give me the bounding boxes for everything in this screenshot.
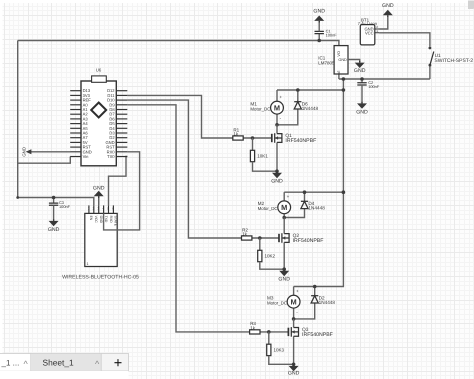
- wire Vin pin to left rail: [18, 157, 71, 164]
- svg-text:IRF540NPBF: IRF540NPBF: [293, 238, 324, 244]
- resistor 10K1 pulldown: [250, 138, 277, 171]
- wire left vertical rail: [17, 41, 19, 198]
- svg-text:GND: GND: [354, 68, 366, 74]
- svg-text:GND: GND: [271, 179, 283, 185]
- node rail M1 junction: [342, 88, 346, 92]
- svg-text:GND: GND: [313, 8, 325, 14]
- svg-text:+: +: [287, 194, 290, 199]
- svg-text:+: +: [296, 289, 299, 294]
- node supply row rail junction: [342, 77, 346, 81]
- regulator IC1 LM7805: [318, 46, 348, 74]
- svg-text:7.4v Li-ion: 7.4v Li-ion: [358, 21, 378, 26]
- svg-text:1: 1: [87, 262, 89, 266]
- resistor R3 1k: [250, 321, 260, 334]
- svg-text:VCC: VCC: [365, 30, 374, 35]
- capacitor C3 100nF: [49, 200, 71, 209]
- wire switch to supply row: [429, 67, 431, 79]
- wire C1 stem: [318, 34, 320, 41]
- resistor 10K2 pulldown: [258, 238, 285, 269]
- wire GND flag to U6 GND pin: [29, 151, 70, 153]
- svg-text:GND: GND: [338, 58, 347, 62]
- transistor Q1: [272, 125, 316, 171]
- svg-text:VO: VO: [337, 51, 341, 57]
- svg-text:GND: GND: [278, 277, 290, 283]
- capacitor C1 100nF: [315, 28, 338, 37]
- svg-text:_1 ...: _1 ...: [1, 359, 20, 368]
- svg-text:M: M: [274, 103, 280, 112]
- motor M2: [258, 192, 291, 220]
- svg-text:1N4448: 1N4448: [319, 300, 336, 305]
- node M1 drain junction: [275, 123, 279, 127]
- svg-text:1N4448: 1N4448: [302, 106, 319, 111]
- svg-text:1k: 1k: [242, 231, 248, 236]
- svg-text:IRF540NPBF: IRF540NPBF: [285, 138, 316, 144]
- svg-text:GND: GND: [48, 227, 60, 233]
- svg-text:Motor_DC: Motor_DC: [258, 206, 278, 211]
- node Q2 gate junction: [258, 236, 262, 240]
- wire regulator VI pin down to supply row: [338, 74, 340, 79]
- svg-text:Vin: Vin: [83, 154, 90, 159]
- ground BT1: [382, 3, 394, 17]
- wire BT1 GND to ground flag: [379, 15, 388, 29]
- battery BT1 7.4v Li-ion: [358, 17, 380, 45]
- svg-text:LM7805: LM7805: [318, 60, 335, 65]
- transistor Q3: [288, 319, 332, 364]
- svg-text:VCC: VCC: [94, 216, 98, 224]
- svg-text:VI: VI: [337, 71, 341, 75]
- svg-text:M: M: [281, 203, 287, 212]
- diode D6: [277, 90, 319, 125]
- resistor R2 1k: [242, 227, 252, 240]
- svg-text:100nF: 100nF: [326, 33, 338, 38]
- svg-text:GND: GND: [288, 371, 300, 377]
- svg-text:EN: EN: [89, 216, 93, 221]
- wire R2 to Q2 gate: [252, 237, 279, 239]
- svg-text:Motor_DC: Motor_DC: [267, 300, 287, 305]
- node Q1 gate junction: [251, 136, 255, 140]
- node M3 source junction: [292, 363, 296, 367]
- wire C3 junction stem: [53, 198, 55, 204]
- svg-text:STATE: STATE: [114, 216, 118, 227]
- capacitor C2 100nF: [357, 80, 380, 89]
- resistor R1 1k: [233, 127, 243, 140]
- wire bottom rail to bluetooth VCC pin: [18, 198, 94, 206]
- ground net flag at U6 GND pin: [22, 147, 32, 157]
- svg-text:SWITCH-SPST-2: SWITCH-SPST-2: [434, 58, 473, 64]
- ground M2 channel: [283, 269, 285, 271]
- MCU U6 Arduino Nano: [70, 68, 127, 166]
- svg-text:U6: U6: [96, 68, 102, 73]
- svg-text:10K3: 10K3: [274, 348, 285, 353]
- node bottom rail C3 junction: [52, 196, 56, 200]
- wire C2 stem: [361, 79, 363, 83]
- wire supply row to switch: [339, 78, 430, 80]
- svg-text:GND: GND: [93, 185, 105, 191]
- svg-text:M: M: [291, 297, 297, 306]
- node D6 top junction: [296, 88, 300, 92]
- diode D4: [284, 192, 325, 217]
- ground C2: [356, 85, 368, 116]
- node supply row C2 junction: [360, 77, 364, 81]
- wire 5V rail from regulator output to left side: [18, 41, 339, 46]
- resistor 10K3 pulldown: [267, 332, 294, 364]
- wire U6 D10 to R2: [127, 100, 241, 238]
- svg-text:10K2: 10K2: [265, 254, 276, 259]
- svg-text:RXD: RXD: [109, 216, 113, 224]
- wire R3 to Q3 gate: [260, 331, 288, 333]
- svg-text:GND: GND: [356, 110, 368, 116]
- svg-text:+: +: [114, 356, 122, 372]
- wire M2 top rail: [284, 191, 343, 193]
- wire R1 to Q1 gate: [243, 137, 272, 139]
- svg-text:GND: GND: [382, 3, 394, 9]
- switch U1 SWITCH-SPST-2: [429, 47, 474, 67]
- svg-text:1k: 1k: [233, 131, 239, 136]
- node left rail corner: [16, 196, 19, 199]
- svg-text:GND: GND: [22, 147, 27, 157]
- wire motor supply rail: [294, 79, 344, 287]
- node D2 top junction: [313, 285, 317, 289]
- wire U6 D11 to R1: [127, 95, 233, 138]
- node C1 junction: [317, 39, 321, 43]
- svg-text:GND: GND: [99, 216, 103, 224]
- node Q3 gate junction: [267, 330, 271, 334]
- wire M1 top rail: [277, 89, 343, 91]
- svg-text:Sheet_1: Sheet_1: [43, 358, 75, 368]
- bluetooth module U5 WIRELESS-BLUETOOTH-HC-05: [62, 205, 139, 280]
- wire U6 RX0 to bluetooth TXD: [104, 152, 140, 230]
- transistor Q2: [279, 218, 323, 270]
- svg-text:TXD: TXD: [104, 216, 108, 223]
- svg-text:1N4448: 1N4448: [308, 206, 325, 211]
- motor M3: [267, 287, 300, 319]
- motor M1: [250, 90, 283, 125]
- svg-text:WIRELESS-BLUETOOTH-HC-05: WIRELESS-BLUETOOTH-HC-05: [62, 275, 139, 281]
- diode D2: [294, 287, 336, 319]
- node M2 source junction: [282, 267, 286, 271]
- node rail M2 junction: [342, 190, 346, 194]
- wire U6 TX0 to bluetooth RXD: [109, 157, 128, 206]
- ground bluetooth GND pin: [93, 185, 105, 205]
- node D4 top junction: [303, 190, 307, 194]
- svg-text:Motor_DC: Motor_DC: [250, 106, 270, 111]
- svg-text:+: +: [279, 95, 282, 100]
- svg-text:TX0: TX0: [107, 154, 115, 159]
- svg-text:100nF: 100nF: [59, 204, 71, 209]
- svg-text:1k: 1k: [250, 325, 256, 330]
- ground M3 channel: [293, 364, 295, 366]
- wire BT1 VCC to switch: [379, 33, 430, 47]
- ground C1: [313, 8, 325, 31]
- svg-text:IRF540NPBF: IRF540NPBF: [302, 332, 333, 338]
- node M3 drain junction: [292, 317, 296, 321]
- ground IC1 GND pin: [348, 60, 366, 74]
- ground M1 channel: [276, 171, 278, 173]
- svg-text:100nF: 100nF: [368, 84, 380, 89]
- ground C3: [48, 205, 60, 233]
- svg-text:10K1: 10K1: [257, 154, 268, 159]
- node M2 drain junction: [282, 216, 286, 220]
- node M1 source junction: [275, 169, 279, 173]
- wire U6 D9 to R3: [127, 105, 249, 332]
